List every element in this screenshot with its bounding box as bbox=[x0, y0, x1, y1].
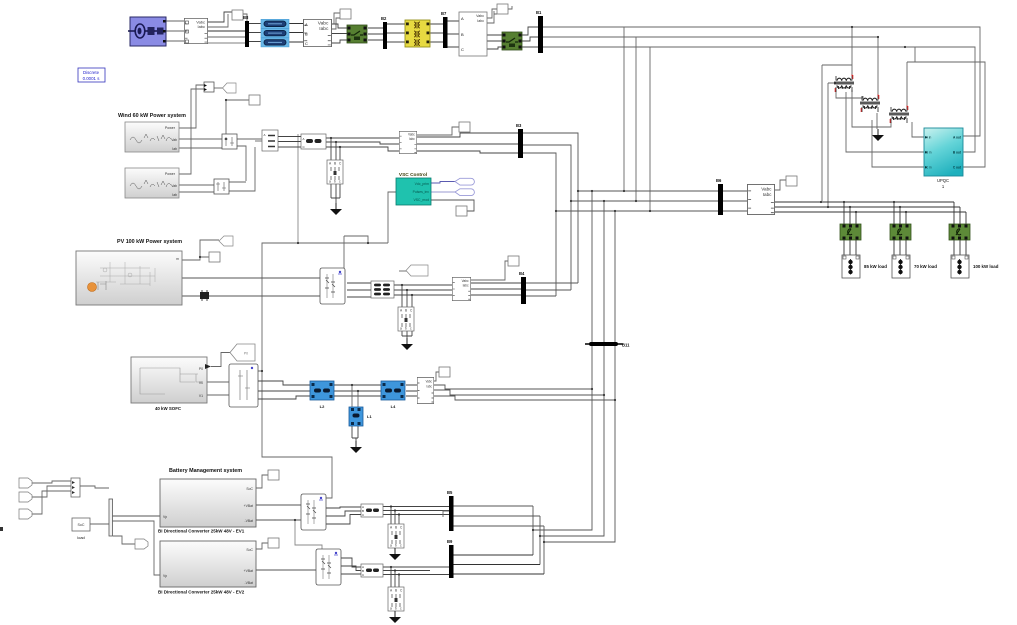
svg-text:B9: B9 bbox=[447, 539, 453, 544]
svg-text:0.0001 s: 0.0001 s bbox=[83, 76, 101, 81]
svg-text:P0: P0 bbox=[199, 367, 203, 371]
svg-text:SoC: SoC bbox=[246, 548, 253, 552]
svg-text:B5: B5 bbox=[447, 490, 453, 495]
svg-text:load: load bbox=[77, 535, 85, 540]
svg-text:Vp: Vp bbox=[163, 515, 167, 519]
svg-text:B8: B8 bbox=[243, 15, 249, 20]
svg-text:-VBat: -VBat bbox=[245, 581, 254, 585]
svg-text:L1: L1 bbox=[367, 414, 372, 419]
svg-text:B11: B11 bbox=[622, 343, 630, 348]
svg-text:C: C bbox=[305, 41, 308, 46]
svg-text:Iab: Iab bbox=[172, 147, 177, 151]
svg-text:SoC: SoC bbox=[78, 523, 85, 527]
svg-text:Iabc: Iabc bbox=[477, 19, 484, 23]
svg-text:A out: A out bbox=[953, 136, 962, 140]
svg-text:B7: B7 bbox=[441, 11, 447, 16]
svg-text:Power: Power bbox=[165, 172, 176, 176]
svg-text:B1: B1 bbox=[536, 10, 542, 15]
svg-text:m: m bbox=[176, 257, 179, 261]
svg-text:Vdc_prim: Vdc_prim bbox=[415, 182, 429, 186]
svg-text:-VBat: -VBat bbox=[245, 519, 254, 523]
svg-text:Discrete: Discrete bbox=[83, 70, 100, 75]
svg-text:C out: C out bbox=[953, 166, 962, 170]
svg-text:B: B bbox=[461, 32, 464, 37]
svg-text:Vab: Vab bbox=[171, 184, 177, 188]
svg-text:A: A bbox=[264, 133, 266, 137]
svg-text:C: C bbox=[461, 47, 464, 52]
svg-text:B6: B6 bbox=[716, 178, 722, 183]
svg-text:Vabc: Vabc bbox=[476, 14, 484, 18]
svg-text:B out: B out bbox=[953, 151, 962, 155]
svg-text:PV 100 kW Power system: PV 100 kW Power system bbox=[117, 239, 182, 245]
svg-text:Bi Directional Converter 25kW: Bi Directional Converter 25kW 48V - EV2 bbox=[158, 590, 245, 595]
svg-text:V0: V0 bbox=[199, 381, 203, 385]
svg-text:Vab: Vab bbox=[171, 138, 177, 142]
svg-text:Vp: Vp bbox=[163, 574, 167, 578]
svg-text:40 kW SOFC: 40 kW SOFC bbox=[155, 406, 182, 411]
svg-text:B2: B2 bbox=[381, 16, 387, 21]
svg-text:A: A bbox=[461, 16, 464, 21]
svg-text:V1: V1 bbox=[199, 394, 203, 398]
svg-text:B4: B4 bbox=[519, 271, 525, 276]
svg-text:B: B bbox=[305, 32, 308, 37]
svg-text:Bi Directional Converter 25kW: Bi Directional Converter 25kW 48V - EV1 bbox=[158, 529, 245, 534]
svg-text:Iab: Iab bbox=[172, 193, 177, 197]
svg-text:UPQC: UPQC bbox=[937, 178, 949, 183]
svg-text:100 kW load: 100 kW load bbox=[973, 264, 999, 269]
svg-text:+VBat: +VBat bbox=[244, 504, 253, 508]
svg-text:85 kW load: 85 kW load bbox=[864, 264, 887, 269]
svg-text:VSC Control: VSC Control bbox=[399, 172, 427, 178]
svg-text:P0: P0 bbox=[244, 352, 248, 356]
svg-text:B3: B3 bbox=[516, 123, 522, 128]
svg-text:Battery Management system: Battery Management system bbox=[169, 468, 242, 474]
svg-text:Power: Power bbox=[165, 126, 176, 130]
svg-text:A: A bbox=[305, 22, 308, 27]
svg-text:L2: L2 bbox=[320, 404, 325, 409]
svg-text:Wind 60 kW Power system: Wind 60 kW Power system bbox=[118, 113, 186, 119]
svg-text:Pulses_inv: Pulses_inv bbox=[413, 190, 430, 194]
svg-text:70 kW load: 70 kW load bbox=[914, 264, 937, 269]
svg-text:+VBat: +VBat bbox=[244, 569, 253, 573]
svg-text:A: A bbox=[303, 137, 305, 141]
svg-text:VSC_mod: VSC_mod bbox=[414, 198, 430, 202]
svg-text:SoC: SoC bbox=[246, 487, 253, 491]
svg-text:L4: L4 bbox=[391, 404, 396, 409]
